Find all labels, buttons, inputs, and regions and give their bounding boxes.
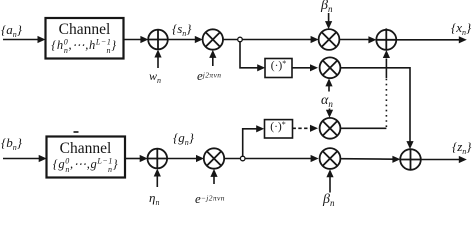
label e^j2pivn — [197, 68, 221, 84]
label Channel G taps — [45, 156, 126, 174]
label Channel H taps — [44, 37, 124, 55]
multiplier M6 (e^-j2pivn) — [204, 148, 224, 168]
wire w_n arrow into adder A1 — [154, 50, 161, 69]
label Channel H title — [45, 21, 124, 39]
multiplier M3 (alpha_n upper) — [320, 57, 341, 78]
label b_n — [1, 135, 22, 152]
label beta_n lower — [323, 192, 334, 208]
wire channel G to adder A4 — [125, 155, 148, 162]
label beta_n upper — [321, 0, 332, 14]
adder A3 (output z_n) — [400, 149, 421, 170]
label s_n — [172, 21, 191, 38]
label z_n output — [452, 139, 471, 156]
wire conjugate box K2 to multiplier M4 (dashed) — [293, 125, 319, 132]
label conjugate K2 — [264, 120, 292, 133]
wire input a_n to channel H — [3, 36, 46, 43]
wire adder A4 to multiplier M6 — [167, 155, 204, 162]
wire adder A3 to output z_n — [421, 156, 467, 163]
wire beta_n arrow up into M5 — [326, 169, 333, 192]
conjugate box K1 — [265, 59, 292, 78]
label g_n — [173, 130, 194, 147]
wire channel H to adder A1 — [124, 36, 149, 43]
node N2 — [240, 156, 245, 161]
label e^-j2pivn — [195, 191, 225, 207]
adder A4 (eta_n) — [148, 149, 168, 169]
label x_n output — [451, 20, 471, 37]
adder A1 (w_n) — [148, 30, 168, 50]
channel G box — [47, 137, 126, 178]
label Channel G title — [46, 140, 125, 158]
wire M5 to adder A3 — [340, 156, 400, 163]
adder A2 (output x_n) — [376, 28, 396, 49]
wire M1 to multiplier M2 through node N1 — [223, 36, 319, 43]
wire e^-j2pivn arrow into M6 — [210, 169, 217, 184]
stray scan mark above channel G — [74, 131, 79, 133]
multiplier M4 (alpha_n lower) — [320, 118, 341, 139]
label a_n — [1, 22, 22, 39]
multiplier M2 (beta_n) — [319, 29, 340, 50]
node N1 — [238, 37, 243, 42]
wire M6 to multiplier M5 through node N2 — [224, 155, 318, 162]
wire M3 output down into adder A3 — [340, 68, 413, 149]
multiplier M1 (e^j2pivn) — [203, 29, 223, 49]
wire M2 to adder A2 — [339, 36, 376, 43]
label alpha_n — [321, 93, 333, 109]
wire eta_n arrow into adder A4 — [154, 169, 161, 188]
wire input b_n to channel G — [3, 155, 47, 162]
wire conjugate box K1 to multiplier M3 — [292, 64, 318, 71]
wire M4 output up into adder A2 (partly dotted) — [340, 50, 390, 128]
conjugate box K2 — [265, 120, 293, 138]
label eta_n — [149, 190, 159, 207]
wire branch node N1 down to conjugate box K1 — [240, 41, 265, 71]
label conjugate K1 — [265, 59, 292, 72]
label w_n — [149, 69, 161, 85]
wire branch node N2 up to conjugate box K2 — [243, 125, 265, 157]
channel H box — [46, 18, 124, 59]
wire alpha_n arrow up into M3 — [325, 78, 332, 91]
wire beta_n arrow into M2 — [325, 13, 332, 29]
wire adder A2 to output x_n — [396, 36, 467, 43]
multiplier M5 (beta_n lower) — [320, 148, 341, 169]
wire alpha_n arrow down into M4 — [326, 109, 333, 118]
wire e^j2pivn arrow into M1 — [209, 50, 216, 66]
wire adder A1 to multiplier M1 — [168, 36, 203, 43]
